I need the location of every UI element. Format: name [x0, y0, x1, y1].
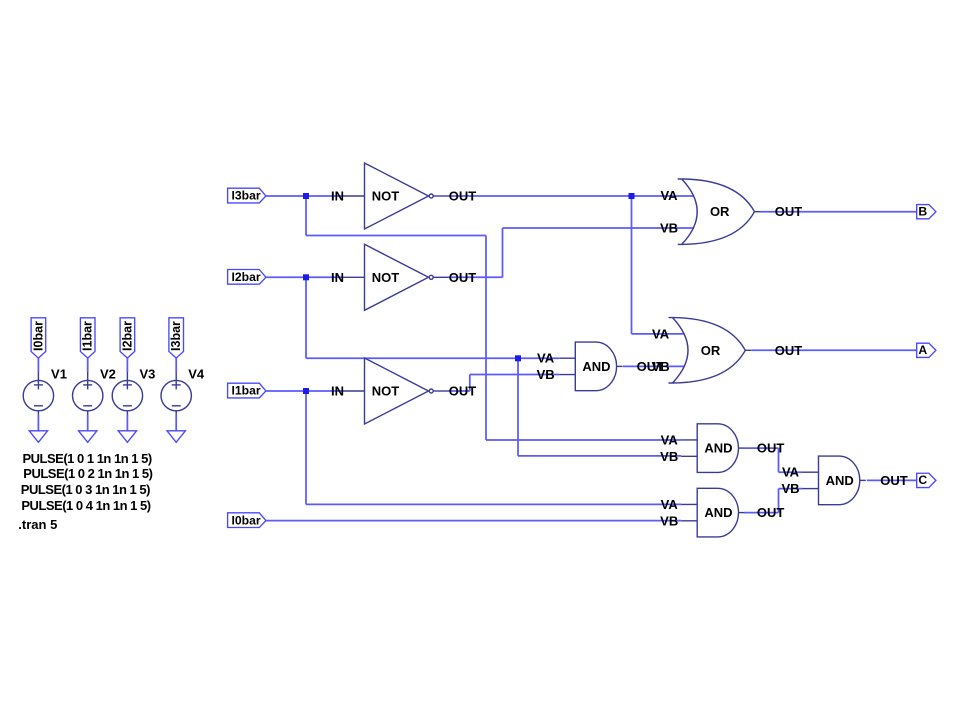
svg-text:VB: VB — [660, 220, 678, 235]
wire NOT3 OUT east — [448, 390, 470, 392]
pin label VB (AND gate U7) — [781, 481, 799, 496]
svg-text:I2bar: I2bar — [120, 321, 134, 351]
ground (V4) — [167, 431, 185, 443]
wire I2bar to NOT2 IN — [266, 276, 344, 278]
pin label OUT (NOT gate U3) — [449, 384, 477, 399]
wire AND4-out up to AND5 VB — [778, 489, 780, 513]
svg-text:I3bar: I3bar — [169, 321, 183, 351]
AND gate U6 — [681, 488, 744, 537]
wire V4 minus terminal to ground — [175, 415, 177, 431]
svg-text:IN: IN — [331, 270, 344, 285]
pin label IN (NOT gate U2) — [331, 270, 344, 285]
label OR (OR gate U8) — [710, 204, 730, 219]
svg-text:OUT: OUT — [449, 189, 477, 204]
junction on NOT1 output net — [629, 193, 635, 199]
wire I3bar to NOT1 IN — [266, 195, 344, 197]
wire V3 minus terminal to ground — [126, 415, 128, 431]
svg-text:VA: VA — [782, 465, 800, 480]
wire AND3-out down to AND5 VA — [778, 448, 780, 472]
wire NOT3-out to AND1 VB — [470, 374, 560, 376]
label AND (AND gate U5) — [704, 441, 732, 456]
flag I3bar (net label, input port pointing down) — [169, 318, 184, 358]
NOT gate U2 — [344, 244, 448, 310]
OR gate U8 — [678, 179, 761, 244]
wire I3bar junction down — [305, 196, 307, 236]
label NOT (NOT gate U3) — [372, 384, 400, 399]
svg-text:OR: OR — [701, 343, 721, 358]
pin label OUT (NOT gate U1) — [449, 189, 477, 204]
wire I2bar branch to AND1 VA — [306, 357, 559, 359]
svg-text:IN: IN — [331, 189, 344, 204]
svg-text:NOT: NOT — [372, 270, 400, 285]
label AND (AND gate U7) — [826, 473, 854, 488]
label NOT (NOT gate U2) — [372, 270, 400, 285]
flag A (output port) — [917, 343, 936, 357]
label V1 — [51, 366, 67, 381]
label NOT (NOT gate U1) — [372, 189, 400, 204]
svg-text:AND: AND — [582, 359, 610, 374]
svg-text:I1bar: I1bar — [232, 384, 261, 398]
wire node NOT2-out to OR1 VB — [503, 227, 694, 229]
wire OR1 OUT to flag B — [761, 211, 917, 213]
wire I2bar branch down to AND3 VB — [517, 358, 519, 456]
pin label VA (AND gate U7) — [782, 465, 800, 480]
svg-text:VA: VA — [661, 497, 679, 512]
svg-text:PULSE(1 0 4 1n 1n 1 5): PULSE(1 0 4 1n 1n 1 5) — [21, 498, 150, 513]
svg-text:C: C — [918, 473, 927, 487]
flag I2bar (net label into logic) — [228, 270, 266, 285]
wire NOT1-out branch to OR2 VA — [632, 333, 685, 335]
svg-text:A: A — [918, 343, 927, 357]
svg-text:IN: IN — [331, 384, 344, 399]
svg-text:OUT: OUT — [775, 204, 803, 219]
svg-text:VA: VA — [537, 351, 555, 366]
pin label OUT (AND gate U7) — [880, 473, 908, 488]
flag I0bar (net label into logic) — [228, 513, 266, 528]
svg-text:VB: VB — [781, 481, 799, 496]
svg-text:B: B — [918, 204, 927, 218]
label V2 — [100, 366, 116, 381]
svg-text:V2: V2 — [100, 366, 116, 381]
pin label OUT (OR gate U9) — [775, 343, 803, 358]
wire NOT2-out up to OR1 VB row — [502, 228, 504, 277]
pin label VB (OR gate U9) — [652, 359, 670, 374]
svg-text:NOT: NOT — [372, 384, 400, 399]
pin label VA (OR gate U9) — [652, 326, 670, 341]
ground (V1) — [29, 431, 47, 443]
label AND (AND gate U4) — [582, 359, 610, 374]
wire I3bar branch horizontal — [306, 235, 486, 237]
wire AND1 OUT to OR2 VB — [623, 365, 685, 367]
label V3 — [139, 366, 155, 381]
AND gate U7 — [803, 456, 866, 505]
svg-text:OUT: OUT — [449, 384, 477, 399]
svg-text:OR: OR — [710, 204, 730, 219]
flag I1bar (net label into logic) — [228, 383, 266, 398]
junction on I1bar net — [303, 388, 309, 394]
svg-text:AND: AND — [704, 441, 732, 456]
label AND (AND gate U6) — [704, 505, 732, 520]
svg-text:VA: VA — [661, 432, 679, 447]
voltage source V4 — [161, 372, 191, 415]
svg-text:VA: VA — [652, 326, 670, 341]
svg-text:OUT: OUT — [880, 473, 908, 488]
AND gate U5 — [681, 424, 744, 473]
wire I2bar branch to AND3 VB — [518, 455, 681, 457]
svg-text:VB: VB — [652, 359, 670, 374]
wire AND3 OUT east — [745, 447, 779, 449]
pin label VA (OR gate U8) — [660, 188, 678, 203]
flag I3bar (net label into logic) — [228, 188, 266, 203]
wire I3bar flag to V4 plus terminal — [175, 358, 177, 372]
voltage source V3 — [112, 372, 142, 415]
OR gate U9 — [669, 318, 752, 383]
flag I1bar (net label, input port pointing down) — [80, 318, 95, 358]
svg-text:I1bar: I1bar — [81, 321, 95, 351]
wire I1bar junction down — [305, 391, 307, 504]
wire I1bar to NOT3 IN — [266, 390, 344, 392]
NOT gate U1 — [344, 163, 448, 229]
svg-text:AND: AND — [826, 473, 854, 488]
voltage source V1 — [23, 372, 53, 415]
svg-text:I0bar: I0bar — [31, 321, 45, 351]
svg-text:OUT: OUT — [775, 343, 803, 358]
svg-text:VB: VB — [537, 367, 555, 382]
pin label OUT (AND gate U4) — [637, 359, 665, 374]
svg-text:I3bar: I3bar — [232, 189, 261, 203]
label V4 — [188, 366, 205, 381]
svg-text:PULSE(1 0 1 1n 1n 1 5): PULSE(1 0 1 1n 1n 1 5) — [23, 451, 152, 466]
wire NOT2 OUT east — [448, 276, 503, 278]
pin label VB (OR gate U8) — [660, 220, 678, 235]
wire V1 minus terminal to ground — [37, 415, 39, 431]
wire I0bar to AND4 VB — [266, 520, 681, 522]
value label PULSE for V2 — [23, 466, 152, 481]
svg-text:V4: V4 — [188, 366, 205, 381]
svg-text:VB: VB — [660, 513, 678, 528]
pin label VA (AND gate U5) — [661, 432, 679, 447]
ground (V3) — [118, 431, 136, 443]
wire I2bar junction down — [305, 277, 307, 358]
wire NOT3-out up to AND1 VB row — [469, 375, 471, 392]
label OR (OR gate U9) — [701, 343, 721, 358]
pin label OUT (NOT gate U2) — [449, 270, 477, 285]
wire I3bar branch to AND3 VA — [486, 439, 681, 441]
wire NOT1-out junction down to OR2 VA — [631, 196, 633, 334]
svg-text:PULSE(1 0 3 1n 1n 1 5): PULSE(1 0 3 1n 1n 1 5) — [21, 482, 150, 497]
wire OR2 OUT to flag A — [752, 349, 917, 351]
wire to AND5 VB — [779, 488, 803, 490]
svg-text:OUT: OUT — [757, 441, 785, 456]
spice directive .tran 5 — [18, 517, 57, 532]
voltage source V2 — [73, 372, 103, 415]
svg-text:.tran 5: .tran 5 — [18, 517, 57, 532]
pin label OUT (AND gate U6) — [757, 505, 785, 520]
wire AND5 OUT to flag C — [867, 479, 917, 481]
pin label VA (AND gate U6) — [661, 497, 679, 512]
pin label VB (AND gate U4) — [537, 367, 555, 382]
pin label OUT (AND gate U5) — [757, 441, 785, 456]
AND gate U4 — [559, 342, 622, 391]
pin label IN (NOT gate U3) — [331, 384, 344, 399]
svg-text:OUT: OUT — [449, 270, 477, 285]
wire I1bar branch to AND4 VA — [306, 503, 681, 505]
wire I0bar flag to V1 plus terminal — [37, 358, 39, 372]
junction on AND1 VA net — [515, 355, 521, 361]
pin label OUT (OR gate U8) — [775, 204, 803, 219]
wire I1bar flag to V2 plus terminal — [87, 358, 89, 372]
ground (V2) — [79, 431, 97, 443]
svg-text:V3: V3 — [139, 366, 155, 381]
value label PULSE for V4 — [21, 498, 150, 513]
flag C (output port) — [917, 473, 936, 487]
wire NOT1 OUT to OR1 VA — [448, 195, 694, 197]
junction on I3bar net — [303, 193, 309, 199]
flag B (output port) — [917, 204, 936, 218]
pin label IN (NOT gate U1) — [331, 189, 344, 204]
wire I2bar flag to V3 plus terminal — [126, 358, 128, 372]
NOT gate U3 — [344, 358, 448, 424]
pin label VB (AND gate U5) — [660, 449, 678, 464]
value label PULSE for V1 — [23, 451, 152, 466]
svg-text:I0bar: I0bar — [232, 513, 261, 527]
wire AND4 OUT east — [745, 512, 779, 514]
junction on I2bar net — [303, 274, 309, 280]
value label PULSE for V3 — [21, 482, 150, 497]
svg-text:AND: AND — [704, 505, 732, 520]
wire to AND5 VA — [779, 471, 803, 473]
flag I0bar (net label, input port pointing down) — [31, 318, 46, 358]
svg-text:NOT: NOT — [372, 189, 400, 204]
svg-text:OUT: OUT — [757, 505, 785, 520]
pin label VA (AND gate U4) — [537, 351, 555, 366]
svg-text:PULSE(1 0 2 1n 1n 1 5): PULSE(1 0 2 1n 1n 1 5) — [23, 466, 152, 481]
wire I3bar branch vertical — [485, 236, 487, 441]
svg-text:VA: VA — [660, 188, 678, 203]
pin label VB (AND gate U6) — [660, 513, 678, 528]
svg-text:V1: V1 — [51, 366, 67, 381]
wire V2 minus terminal to ground — [87, 415, 89, 431]
svg-text:I2bar: I2bar — [232, 270, 261, 284]
svg-text:VB: VB — [660, 449, 678, 464]
flag I2bar (net label, input port pointing down) — [120, 318, 135, 358]
